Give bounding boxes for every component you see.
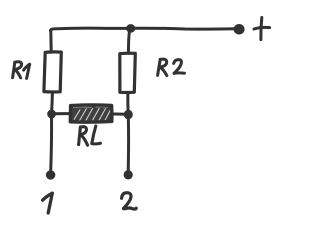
label 1 (bottom left terminal) (43, 193, 53, 213)
resistor RL (hatched box) (70, 105, 112, 122)
wire left vertical drop to R1 (49, 31, 52, 53)
label RL (79, 126, 101, 145)
wire R1 bottom to left junction (50, 92, 54, 111)
wire RL box to right junction (112, 112, 126, 115)
node B (right junction dot) (124, 110, 132, 118)
terminal 2 dot (124, 171, 132, 179)
wire left junction down to terminal 1 (49, 116, 53, 172)
label 2 (bottom right terminal) (122, 193, 137, 209)
plus symbol (254, 18, 270, 40)
label R2 (158, 59, 185, 75)
node top (junction dot on top wire) (127, 25, 135, 33)
label R1 (13, 62, 30, 79)
wire R2 bottom to right junction (126, 93, 129, 111)
wire top junction down to R2 (128, 30, 129, 54)
node A (left junction dot) (48, 110, 56, 118)
resistor R1 (44, 52, 61, 92)
wire top horizontal from left corner to + terminal (51, 28, 235, 31)
terminal + dot (234, 25, 244, 35)
resistor R2 (120, 53, 136, 92)
wire left junction to RL box (53, 112, 71, 115)
terminal 1 dot (46, 171, 55, 179)
wire right junction down to terminal 2 (127, 117, 130, 171)
